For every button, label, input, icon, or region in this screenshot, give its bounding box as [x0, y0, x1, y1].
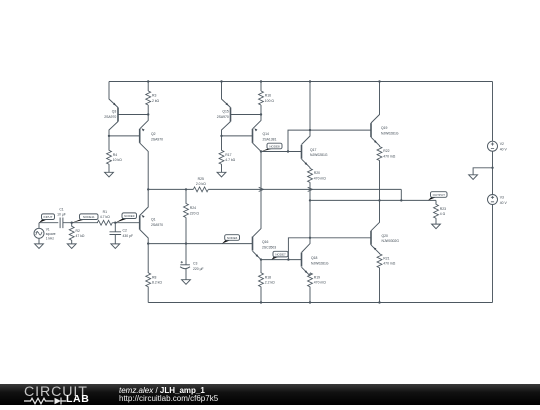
- node junction Q3 base / Q2 emitter: [147, 113, 149, 115]
- wire Q18 collector-base tie loop: [288, 238, 310, 260]
- svg-text:R19: R19: [314, 275, 320, 279]
- svg-text:V3: V3: [500, 196, 504, 200]
- ground below V1: [35, 244, 44, 249]
- svg-text:4.7 kΩ: 4.7 kΩ: [100, 215, 110, 219]
- transistor Q14: [253, 115, 262, 129]
- flag INPUT: [39, 220, 47, 223]
- node junction rail Q19 collector: [378, 80, 380, 82]
- voltage source V3 40V: [492, 168, 494, 195]
- flag OUTPUT: [428, 197, 436, 200]
- svg-text:C3: C3: [193, 262, 197, 266]
- resistor R17 4.7k: [221, 136, 223, 151]
- wire Q3 base to R3: [118, 114, 148, 116]
- svg-text:470 mΩ: 470 mΩ: [383, 262, 395, 266]
- svg-text:8.2 kΩ: 8.2 kΩ: [152, 281, 162, 285]
- svg-text:R24: R24: [190, 206, 196, 210]
- resistor R23 4ohm load: [435, 200, 437, 204]
- svg-text:NODE8: NODE8: [269, 144, 280, 148]
- capacitor C3 220u polarized: [185, 244, 187, 265]
- svg-text:INPUT: INPUT: [44, 215, 53, 219]
- wire Q15 emitter from rail: [222, 82, 231, 108]
- node junction Q1 emitter / R25 / Q2 collector: [147, 188, 149, 190]
- flag NODE8: [261, 149, 273, 152]
- flag NODE6: [222, 240, 230, 243]
- flag NODE9: [115, 219, 127, 223]
- ground below C3: [182, 280, 191, 285]
- svg-text:C1: C1: [59, 208, 63, 212]
- node junction Q16 emitter / NODE7: [260, 258, 262, 260]
- svg-text:C2: C2: [123, 229, 127, 233]
- node junction R2 top: [71, 222, 73, 224]
- svg-text:R23: R23: [440, 207, 446, 211]
- wire NODE8 column to Q16 collector: [260, 152, 262, 229]
- flag NODE7: [272, 257, 279, 260]
- ground below R2: [67, 244, 76, 249]
- svg-text:Q1: Q1: [151, 218, 156, 222]
- footer url text: [119, 394, 218, 403]
- resistor R21 470m: [377, 254, 382, 268]
- node junction Q3 collector / R4 / Q2 base: [108, 135, 110, 137]
- svg-text:Q18: Q18: [311, 256, 318, 260]
- svg-text:NJW0281G: NJW0281G: [310, 153, 328, 157]
- wire input node: [39, 222, 58, 224]
- wire emitter node to R24/R25: [148, 188, 193, 190]
- transistor Q20: [371, 200, 380, 230]
- node junction rail x221: [220, 80, 222, 82]
- svg-text:1 kHz: 1 kHz: [46, 236, 55, 240]
- node junction R24 bottom / C3: [185, 242, 187, 244]
- transistor Q19: [371, 82, 380, 124]
- ground below C2: [111, 244, 120, 249]
- svg-text:R2: R2: [76, 229, 80, 233]
- wire Q15 base to R16: [231, 114, 262, 116]
- ground below R4: [105, 172, 114, 177]
- svg-text:2SA970: 2SA970: [104, 115, 116, 119]
- resistor R2 47k: [71, 223, 73, 227]
- svg-text:R21: R21: [383, 256, 389, 260]
- svg-text:40 V: 40 V: [500, 148, 508, 152]
- svg-text:square: square: [46, 232, 56, 236]
- svg-text:R1: R1: [103, 210, 107, 214]
- resistor R19 470m: [309, 273, 311, 276]
- svg-text:10 kΩ: 10 kΩ: [113, 158, 122, 162]
- node junction Q15 base / Q14 emitter: [260, 113, 262, 115]
- svg-text:NJW0281G: NJW0281G: [381, 132, 399, 136]
- svg-text:40 V: 40 V: [500, 201, 508, 205]
- node junction NODE9 / C2: [114, 222, 116, 224]
- resistor R8 8.2k: [147, 244, 149, 273]
- svg-text:R22: R22: [383, 149, 389, 153]
- svg-text:2.2 kΩ: 2.2 kΩ: [265, 281, 275, 285]
- wire Q19 base: [310, 129, 371, 131]
- resistor R20 470m: [308, 168, 313, 182]
- svg-text:220 Ω: 220 Ω: [190, 211, 200, 215]
- svg-text:2.0 kΩ: 2.0 kΩ: [196, 182, 206, 186]
- resistor R24 220: [185, 189, 187, 203]
- wire R1 to Q1 base: [112, 222, 139, 224]
- svg-text:10 µF: 10 µF: [57, 213, 66, 217]
- node junction R18 bottom rail: [260, 301, 262, 303]
- svg-text:470 mΩ: 470 mΩ: [383, 154, 395, 158]
- svg-text:R3: R3: [152, 94, 156, 98]
- transistor Q15: [230, 108, 232, 122]
- CircuitLab logo: [24, 384, 88, 400]
- capacitor C2 430p: [114, 223, 116, 232]
- svg-text:R25: R25: [198, 177, 204, 181]
- wire Q3 emitter from rail: [109, 82, 118, 108]
- svg-text:V1: V1: [46, 227, 50, 231]
- svg-text:47 kΩ: 47 kΩ: [76, 234, 85, 238]
- node junction feedback tap: [400, 199, 402, 201]
- node junction rail Q17 column: [309, 80, 311, 82]
- wire Q1 collector line to Q16 base: [148, 243, 252, 245]
- ground below R23: [432, 224, 441, 229]
- wire bottom V- rail: [148, 302, 492, 304]
- wire output rail: [310, 199, 436, 201]
- wire hop at R20 column: [308, 187, 313, 191]
- wire Q17 collector-base tie loop: [288, 130, 310, 151]
- wire hop at Q16 collector column: [259, 187, 264, 191]
- svg-text:Q17: Q17: [310, 148, 317, 152]
- svg-text:2 kΩ: 2 kΩ: [152, 99, 160, 103]
- svg-text:NODE7: NODE7: [275, 252, 286, 256]
- ground supply midpoint: [469, 175, 478, 180]
- svg-text:NJW0281G: NJW0281G: [311, 261, 329, 265]
- node junction R20 bottom output rail: [309, 199, 311, 201]
- voltage source V2 40V: [492, 82, 494, 142]
- svg-text:2SA970: 2SA970: [217, 115, 229, 119]
- transistor Q1: [140, 189, 149, 215]
- resistor R18 2.2k: [260, 260, 262, 273]
- svg-text:4.7 kΩ: 4.7 kΩ: [225, 158, 235, 162]
- transistor Q17: [302, 130, 311, 144]
- transistor Q3: [117, 108, 119, 122]
- node junction Q18 base loop: [287, 258, 289, 260]
- svg-text:NJW0302G: NJW0302G: [382, 239, 400, 243]
- node junction Q14 base / R17: [220, 135, 222, 137]
- resistor R1 4.7k: [97, 220, 112, 225]
- node junction R21 bottom rail: [378, 301, 380, 303]
- svg-text:Q16: Q16: [262, 240, 269, 244]
- svg-text:2SA970: 2SA970: [151, 223, 163, 227]
- svg-text:R4: R4: [113, 153, 117, 157]
- node junction R22 bottom / Q20 collector / output rail: [378, 199, 380, 201]
- ground below R17: [217, 172, 226, 177]
- wire midpoint to ground: [473, 168, 492, 175]
- svg-text:R17: R17: [225, 153, 231, 157]
- svg-text:NODE6: NODE6: [227, 236, 238, 240]
- node junction R24 top: [185, 188, 187, 190]
- wire feedback drop to output rail: [400, 189, 402, 200]
- node junction Q17 collector / Q19 base: [309, 129, 311, 131]
- wire NODE8 to Q17 base: [261, 151, 302, 153]
- svg-text:Q2: Q2: [151, 132, 156, 136]
- node junction supply midpoint: [491, 167, 493, 169]
- wire top V+ rail: [109, 81, 493, 83]
- resistor R4 10k: [108, 136, 110, 151]
- node junction R16 top: [260, 80, 262, 82]
- resistor R16 100: [260, 82, 262, 92]
- flag NODE11: [72, 220, 85, 223]
- voltage source V1 square 1kHz: [38, 223, 40, 229]
- node junction R19 bottom rail: [309, 301, 311, 303]
- svg-text:NODE9: NODE9: [124, 214, 135, 218]
- svg-text:4 Ω: 4 Ω: [440, 212, 446, 216]
- footer author and title text: [119, 386, 205, 395]
- svg-text:Q15: Q15: [222, 110, 229, 114]
- wire feedback line to output: [208, 188, 401, 190]
- wire Q20 base: [310, 237, 371, 239]
- svg-text:220 µF: 220 µF: [193, 267, 204, 271]
- svg-text:R8: R8: [152, 275, 156, 279]
- svg-text:R20: R20: [314, 171, 320, 175]
- svg-text:Q3: Q3: [112, 110, 117, 114]
- resistor R25 2.0k feedback: [193, 187, 208, 192]
- resistor R22 470m: [377, 147, 382, 161]
- wire output rail to Q18 column: [309, 200, 311, 237]
- resistor R3 2k: [147, 82, 149, 92]
- svg-text:470 mΩ: 470 mΩ: [314, 176, 326, 180]
- svg-text:V2: V2: [500, 142, 504, 146]
- transistor Q2: [140, 115, 149, 129]
- svg-text:Q20: Q20: [382, 234, 389, 238]
- node junction R3 top: [147, 80, 149, 82]
- svg-text:R18: R18: [265, 275, 271, 279]
- svg-text:NODE11: NODE11: [83, 215, 95, 219]
- svg-text:2SA1381: 2SA1381: [263, 137, 277, 141]
- capacitor C1 10u: [60, 218, 63, 229]
- svg-text:R16: R16: [265, 94, 271, 98]
- node junction Q18 collector / Q20 base: [309, 237, 311, 239]
- transistor Q18: [302, 238, 311, 253]
- wire C1 to R1: [63, 222, 98, 224]
- wire Q17 collector column to rail: [309, 82, 311, 131]
- svg-text:2SA970: 2SA970: [151, 137, 163, 141]
- svg-text:100 Ω: 100 Ω: [265, 99, 275, 103]
- footer bar: [0, 384, 540, 405]
- node NODE8 junction: [260, 150, 262, 152]
- node junction Q1 collector / R8: [147, 242, 149, 244]
- svg-text:470 mΩ: 470 mΩ: [314, 281, 326, 285]
- svg-text:Q19: Q19: [381, 126, 388, 130]
- transistor Q16: [253, 229, 262, 238]
- svg-text:OUTPUT: OUTPUT: [433, 193, 446, 197]
- wire Q16 emitter to Q18 base: [261, 259, 302, 261]
- svg-text:2SC3503: 2SC3503: [262, 245, 276, 249]
- node junction Q17 base loop: [287, 150, 289, 152]
- svg-text:Q14: Q14: [263, 132, 270, 136]
- svg-text:430 pF: 430 pF: [123, 234, 134, 238]
